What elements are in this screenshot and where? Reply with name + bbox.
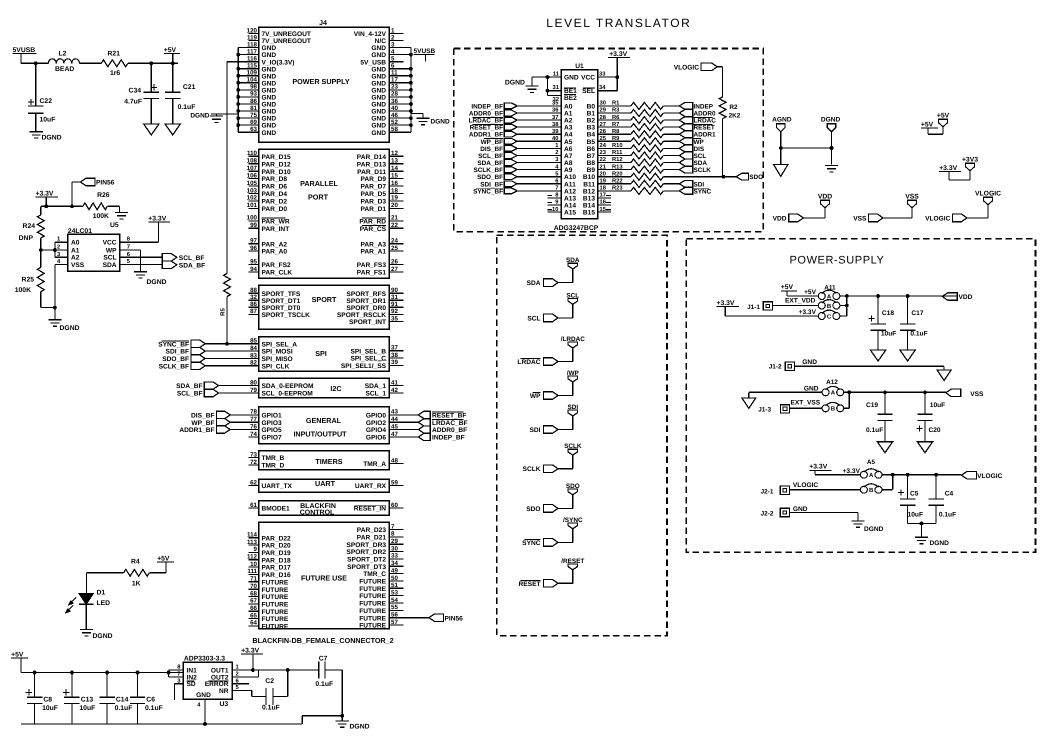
svg-text:87: 87 — [250, 308, 257, 315]
svg-text:LRDAC: LRDAC — [517, 359, 540, 366]
svg-text:VLOGIC: VLOGIC — [793, 482, 819, 489]
svg-text:SYNC: SYNC — [694, 188, 712, 195]
svg-text:41: 41 — [391, 379, 398, 386]
svg-text:15: 15 — [600, 207, 607, 213]
svg-text:3: 3 — [391, 41, 395, 48]
svg-text:B3: B3 — [587, 125, 596, 132]
svg-text:29: 29 — [391, 538, 398, 545]
svg-text:GND: GND — [371, 66, 386, 73]
svg-text:36: 36 — [391, 98, 398, 105]
svg-text:31: 31 — [553, 84, 560, 91]
svg-text:/RESET: /RESET — [561, 558, 584, 565]
svg-text:AGND: AGND — [772, 117, 792, 124]
svg-text:2: 2 — [57, 244, 60, 251]
svg-text:BE2: BE2 — [564, 95, 577, 102]
svg-text:GND: GND — [262, 102, 277, 109]
svg-text:GND: GND — [371, 73, 386, 80]
svg-text:WP: WP — [106, 247, 117, 254]
svg-text:J1-3: J1-3 — [758, 407, 771, 414]
svg-text:B6: B6 — [587, 146, 596, 153]
svg-text:A1: A1 — [71, 247, 80, 254]
svg-text:A12: A12 — [826, 379, 838, 386]
svg-text:PAR_D1: PAR_D1 — [360, 206, 386, 213]
svg-text:U1: U1 — [575, 63, 584, 70]
svg-text:TMR_A: TMR_A — [363, 461, 386, 468]
svg-text:ADDR0_BF: ADDR0_BF — [432, 427, 467, 434]
svg-text:RESET_BF: RESET_BF — [470, 125, 503, 132]
svg-text:22: 22 — [391, 222, 398, 229]
svg-text:GND: GND — [262, 116, 277, 123]
svg-text:24: 24 — [600, 142, 607, 149]
svg-text:SDO: SDO — [526, 506, 540, 513]
svg-text:RESET: RESET — [694, 125, 715, 132]
svg-text:FUTURE: FUTURE — [359, 579, 386, 586]
svg-text:PAR_A0: PAR_A0 — [262, 249, 288, 256]
svg-text:19: 19 — [391, 195, 398, 202]
svg-text:+3.3V: +3.3V — [148, 216, 166, 223]
svg-text:102: 102 — [247, 195, 258, 202]
svg-text:21: 21 — [391, 215, 398, 222]
svg-text:FUTURE: FUTURE — [262, 579, 289, 586]
svg-text:30: 30 — [600, 100, 606, 107]
svg-text:EXT_VSS: EXT_VSS — [791, 400, 821, 407]
svg-text:53: 53 — [391, 589, 398, 596]
svg-text:SPORT_INT: SPORT_INT — [349, 319, 386, 326]
svg-text:24: 24 — [391, 238, 398, 245]
svg-text:52: 52 — [391, 119, 398, 126]
svg-text:+5V: +5V — [937, 112, 950, 119]
svg-text:77: 77 — [250, 416, 257, 423]
svg-text:80: 80 — [250, 379, 257, 386]
svg-text:FUTURE: FUTURE — [359, 601, 386, 608]
svg-text:BLACKFIN-DB_FEMALE_CONNECTOR_2: BLACKFIN-DB_FEMALE_CONNECTOR_2 — [252, 636, 393, 645]
svg-text:CONTROL: CONTROL — [300, 510, 335, 517]
svg-text:26: 26 — [600, 128, 607, 135]
svg-text:SCL_BF: SCL_BF — [177, 391, 203, 398]
svg-text:GND: GND — [262, 73, 277, 80]
svg-text:+3.3V: +3.3V — [609, 51, 627, 58]
svg-text:B5: B5 — [587, 139, 596, 146]
svg-text:72: 72 — [250, 459, 257, 466]
svg-text:SPORT_RFS: SPORT_RFS — [346, 291, 386, 298]
svg-text:SDI: SDI — [530, 427, 541, 434]
svg-text:92: 92 — [391, 308, 398, 315]
svg-text:76: 76 — [250, 423, 257, 430]
svg-text:93: 93 — [250, 91, 257, 98]
svg-text:C4: C4 — [945, 491, 954, 498]
svg-text:PAR_D20: PAR_D20 — [262, 543, 292, 550]
svg-text:SDA_BF: SDA_BF — [176, 383, 202, 390]
svg-text:39: 39 — [552, 128, 559, 135]
svg-text:23: 23 — [600, 149, 607, 156]
svg-text:SCLK: SCLK — [564, 443, 582, 450]
svg-text:FUTURE: FUTURE — [359, 623, 386, 630]
svg-text:NR: NR — [219, 688, 229, 695]
svg-text:WP: WP — [694, 139, 705, 146]
svg-text:B7: B7 — [587, 153, 596, 160]
svg-text:C7: C7 — [319, 656, 328, 663]
svg-text:SCL_BF: SCL_BF — [179, 255, 205, 262]
svg-text:13: 13 — [391, 158, 398, 165]
svg-text:A10: A10 — [564, 174, 576, 181]
svg-text:+5V: +5V — [921, 121, 934, 128]
svg-text:A1: A1 — [564, 111, 573, 118]
svg-text:10uF: 10uF — [79, 705, 95, 712]
svg-text:DGND: DGND — [821, 117, 841, 124]
svg-text:A3: A3 — [564, 125, 573, 132]
svg-text:SPI_SEL_C: SPI_SEL_C — [350, 356, 386, 363]
svg-text:0.1uF: 0.1uF — [866, 427, 883, 434]
svg-text:B4: B4 — [587, 132, 596, 139]
svg-text:0.1uF: 0.1uF — [910, 331, 927, 338]
svg-text:7V_UNREGOUT: 7V_UNREGOUT — [262, 38, 311, 45]
svg-text:SPORT_DT1: SPORT_DT1 — [262, 298, 301, 305]
svg-text:B15: B15 — [583, 210, 595, 217]
svg-text:FUTURE: FUTURE — [262, 624, 289, 631]
svg-text:7: 7 — [555, 186, 558, 192]
svg-text:LRDAC_BF: LRDAC_BF — [432, 420, 468, 427]
svg-text:SDA_0-EEPROM: SDA_0-EEPROM — [262, 383, 315, 390]
svg-text:SDA: SDA — [566, 257, 580, 264]
svg-text:12: 12 — [391, 150, 398, 157]
svg-text:34: 34 — [391, 560, 398, 567]
svg-text:40: 40 — [552, 135, 558, 142]
svg-text:82: 82 — [250, 360, 257, 367]
svg-text:78: 78 — [250, 409, 257, 416]
svg-text:37: 37 — [391, 345, 398, 352]
svg-text:J2-2: J2-2 — [761, 511, 774, 518]
svg-text:C8: C8 — [43, 697, 52, 704]
svg-text:SCLK: SCLK — [523, 466, 541, 473]
svg-text:75: 75 — [250, 112, 257, 119]
svg-text:TMR_D: TMR_D — [262, 463, 285, 470]
svg-text:INPUT/OUTPUT: INPUT/OUTPUT — [293, 430, 347, 439]
svg-text:RESET_BF: RESET_BF — [432, 413, 466, 420]
svg-text:46: 46 — [391, 112, 398, 119]
svg-text:LRDAC_BF: LRDAC_BF — [469, 118, 504, 125]
svg-text:B14: B14 — [583, 203, 595, 210]
svg-text:+3.3V: +3.3V — [717, 300, 735, 307]
svg-text:44: 44 — [391, 416, 398, 423]
svg-text:81: 81 — [250, 105, 257, 112]
svg-text:/SYNC: /SYNC — [563, 517, 583, 524]
svg-text:40: 40 — [391, 105, 398, 112]
svg-text:10uF: 10uF — [42, 705, 58, 712]
svg-text:116: 116 — [247, 56, 258, 63]
svg-text:SPORT_DR3: SPORT_DR3 — [346, 542, 386, 549]
svg-text:10: 10 — [250, 561, 257, 568]
svg-text:112: 112 — [247, 554, 258, 561]
svg-text:SDA_BF: SDA_BF — [179, 263, 205, 270]
svg-text:ADDR1: ADDR1 — [694, 132, 716, 139]
svg-text:GND: GND — [262, 66, 277, 73]
svg-text:101: 101 — [247, 202, 258, 209]
svg-text:SCLK_BF: SCLK_BF — [159, 363, 189, 370]
svg-text:LRDAC: LRDAC — [694, 118, 717, 125]
svg-text:A15: A15 — [564, 210, 576, 217]
svg-text:VIN_4-12V: VIN_4-12V — [354, 31, 387, 38]
svg-text:73: 73 — [250, 451, 257, 458]
svg-text:38: 38 — [391, 352, 398, 359]
svg-text:SCL_0-EEPROM: SCL_0-EEPROM — [262, 391, 314, 398]
svg-text:PAR_D23: PAR_D23 — [357, 527, 387, 534]
svg-text:VLOGIC: VLOGIC — [925, 215, 951, 222]
svg-text:ADG3247BCP: ADG3247BCP — [554, 225, 599, 232]
svg-text:GND: GND — [262, 52, 277, 59]
svg-text:SPORT_DT3: SPORT_DT3 — [347, 564, 386, 571]
svg-text:GND: GND — [262, 109, 277, 116]
svg-text:PAR_D22: PAR_D22 — [262, 535, 292, 542]
svg-text:VDD: VDD — [959, 294, 973, 301]
svg-text:GPIO3: GPIO3 — [262, 420, 282, 427]
svg-text:DGND: DGND — [147, 279, 167, 286]
svg-text:BEAD: BEAD — [55, 66, 74, 73]
svg-text:85: 85 — [250, 338, 257, 345]
svg-text:119: 119 — [247, 34, 258, 41]
svg-text:39: 39 — [391, 359, 398, 366]
svg-text:FUTURE USE: FUTURE USE — [301, 574, 347, 583]
svg-text:GND: GND — [371, 95, 386, 102]
svg-text:4.7uF: 4.7uF — [124, 99, 142, 106]
svg-text:62: 62 — [250, 479, 257, 486]
svg-text:SDO: SDO — [749, 174, 763, 181]
svg-text:FUTURE: FUTURE — [262, 602, 289, 609]
svg-text:SYNC_BF: SYNC_BF — [158, 341, 189, 348]
svg-text:B12: B12 — [583, 188, 595, 195]
svg-text:32: 32 — [250, 294, 257, 301]
svg-text:B11: B11 — [583, 181, 595, 188]
svg-text:0.1uF: 0.1uF — [178, 104, 196, 111]
svg-text:A0: A0 — [564, 103, 573, 110]
svg-text:VLOGIC: VLOGIC — [674, 64, 700, 71]
svg-text:C22: C22 — [40, 98, 53, 105]
svg-text:GND: GND — [371, 88, 386, 95]
svg-text:INDEP: INDEP — [694, 103, 714, 110]
svg-text:LEVEL TRANSLATOR: LEVEL TRANSLATOR — [546, 16, 691, 30]
svg-text:VSS: VSS — [905, 194, 919, 201]
svg-text:PAR_D4: PAR_D4 — [262, 191, 288, 198]
svg-text:4: 4 — [391, 48, 395, 55]
svg-text:R4: R4 — [131, 559, 140, 566]
svg-text:33: 33 — [599, 71, 606, 78]
svg-text:SPORT_DR2: SPORT_DR2 — [346, 549, 386, 556]
svg-text:WP_BF: WP_BF — [481, 139, 503, 146]
svg-text:DIS: DIS — [694, 146, 705, 153]
svg-text:70: 70 — [250, 583, 257, 590]
svg-text:11: 11 — [391, 70, 398, 77]
svg-text:GND: GND — [793, 506, 808, 513]
svg-text:28: 28 — [600, 114, 607, 121]
svg-text:35: 35 — [552, 100, 559, 107]
svg-text:SPORT_DT0: SPORT_DT0 — [262, 305, 301, 312]
svg-text:GND: GND — [262, 95, 277, 102]
svg-text:A2: A2 — [71, 255, 80, 262]
svg-text:88: 88 — [250, 287, 257, 294]
svg-text:PAR_D17: PAR_D17 — [262, 565, 292, 572]
svg-text:17: 17 — [600, 193, 606, 199]
svg-text:B10: B10 — [583, 174, 595, 181]
svg-text:A12: A12 — [564, 188, 576, 195]
svg-text:SDA_BF: SDA_BF — [477, 160, 503, 167]
svg-text:97: 97 — [250, 238, 257, 245]
svg-text:VSS: VSS — [853, 215, 867, 222]
svg-text:35: 35 — [391, 315, 398, 322]
svg-text:PAR_D19: PAR_D19 — [262, 550, 292, 557]
svg-text:PAR_D10: PAR_D10 — [262, 169, 292, 176]
svg-text:29: 29 — [600, 107, 607, 114]
svg-text:+3.3V: +3.3V — [241, 648, 259, 655]
svg-text:A8: A8 — [564, 160, 573, 167]
svg-text:PAR_D8: PAR_D8 — [262, 176, 288, 183]
svg-text:SPI_CLK: SPI_CLK — [262, 363, 290, 370]
svg-text:PORT: PORT — [308, 193, 329, 202]
svg-text:EXT_VDD: EXT_VDD — [785, 298, 816, 305]
svg-text:A0: A0 — [71, 240, 80, 247]
svg-text:106: 106 — [247, 172, 258, 179]
svg-text:SPORT_TFS: SPORT_TFS — [262, 291, 301, 298]
svg-text:C13: C13 — [81, 697, 94, 704]
svg-text:117: 117 — [247, 48, 258, 55]
svg-text:ADP3303-3.3: ADP3303-3.3 — [184, 656, 225, 663]
svg-text:ADDR1_BF: ADDR1_BF — [469, 132, 503, 139]
svg-text:+3V3: +3V3 — [962, 156, 978, 163]
svg-text:A: A — [869, 472, 874, 479]
svg-text:16: 16 — [391, 180, 398, 187]
svg-text:SDO: SDO — [566, 483, 580, 490]
svg-text:/LRDAC: /LRDAC — [561, 336, 586, 343]
svg-text:C18: C18 — [882, 310, 894, 317]
svg-text:DGND: DGND — [431, 118, 450, 125]
svg-text:B2: B2 — [587, 118, 596, 125]
svg-text:GND: GND — [802, 359, 817, 366]
svg-text:+3.3V: +3.3V — [809, 464, 827, 471]
svg-text:PAR_A3: PAR_A3 — [360, 241, 386, 248]
svg-text:109: 109 — [247, 70, 258, 77]
svg-text:48: 48 — [391, 457, 398, 464]
svg-text:9: 9 — [254, 546, 258, 553]
svg-text:B: B — [827, 303, 832, 310]
svg-text:33: 33 — [391, 553, 398, 560]
svg-text:PAR_CS: PAR_CS — [360, 226, 387, 233]
svg-text:SPORT_DT2: SPORT_DT2 — [347, 557, 386, 564]
svg-text:0.1uF: 0.1uF — [315, 681, 333, 688]
svg-text:59: 59 — [391, 479, 398, 486]
svg-text:27: 27 — [391, 266, 398, 273]
svg-text:SCL: SCL — [103, 255, 116, 262]
svg-text:PAR_A2: PAR_A2 — [262, 241, 288, 248]
svg-text:C21: C21 — [183, 84, 196, 91]
svg-text:GENERAL: GENERAL — [306, 416, 342, 425]
svg-text:1: 1 — [391, 27, 395, 34]
svg-text:SDA: SDA — [527, 280, 541, 287]
svg-text:PAR_D2: PAR_D2 — [262, 199, 288, 206]
svg-text:GPIO5: GPIO5 — [262, 427, 282, 434]
svg-text:SCL_BF: SCL_BF — [478, 153, 503, 160]
svg-text:GND: GND — [371, 116, 386, 123]
svg-text:A4: A4 — [564, 132, 573, 139]
svg-text:SDA: SDA — [694, 160, 708, 167]
svg-text:83: 83 — [250, 352, 257, 359]
svg-text:DGND: DGND — [190, 113, 209, 120]
svg-text:LED: LED — [97, 600, 111, 607]
svg-text:R26: R26 — [97, 192, 110, 199]
svg-text:DNP: DNP — [19, 235, 34, 242]
svg-text:C2: C2 — [265, 678, 274, 685]
svg-text:14: 14 — [391, 165, 398, 172]
svg-text:15: 15 — [391, 172, 398, 179]
svg-text:25: 25 — [391, 245, 398, 252]
svg-text:POWER SUPPLY: POWER SUPPLY — [292, 77, 349, 86]
svg-text:DIS_BF: DIS_BF — [191, 413, 214, 420]
svg-text:I2C: I2C — [330, 384, 341, 393]
svg-text:107: 107 — [247, 165, 258, 172]
svg-text:PAR_RD: PAR_RD — [359, 219, 386, 226]
svg-text:DGND: DGND — [505, 80, 525, 87]
svg-text:SPORT_RSCLK: SPORT_RSCLK — [337, 312, 386, 319]
svg-text:PAR_D9: PAR_D9 — [360, 176, 386, 183]
svg-text:B9: B9 — [587, 167, 596, 174]
svg-text:INDEP_BF: INDEP_BF — [471, 103, 503, 110]
svg-text:GPIO7: GPIO7 — [262, 435, 282, 442]
svg-text:GND: GND — [371, 80, 386, 87]
svg-text:R5: R5 — [220, 308, 227, 316]
svg-text:R21: R21 — [108, 51, 121, 58]
svg-text:22: 22 — [600, 156, 606, 163]
svg-text:DGND: DGND — [864, 526, 884, 533]
svg-text:91: 91 — [391, 301, 398, 308]
svg-text:86: 86 — [250, 98, 257, 105]
svg-text:95: 95 — [250, 258, 257, 265]
svg-text:105: 105 — [247, 180, 258, 187]
svg-text:56: 56 — [391, 612, 398, 619]
svg-text:BMODE1: BMODE1 — [262, 506, 291, 513]
svg-text:SDI_BF: SDI_BF — [480, 181, 503, 188]
svg-text:SCL_1: SCL_1 — [365, 391, 386, 398]
svg-text:PAR_D21: PAR_D21 — [357, 535, 387, 542]
svg-text:PAR_D3: PAR_D3 — [360, 199, 386, 206]
svg-text:PAR_D13: PAR_D13 — [357, 161, 387, 168]
svg-text:SD: SD — [187, 681, 196, 688]
svg-text:31: 31 — [391, 294, 398, 301]
svg-text:PAR_INT: PAR_INT — [262, 226, 290, 233]
svg-text:SPI_SEL_A: SPI_SEL_A — [262, 341, 298, 348]
svg-text:16: 16 — [600, 199, 607, 206]
svg-text:B1: B1 — [587, 111, 596, 118]
svg-text:2: 2 — [236, 671, 239, 678]
svg-text:WP_BF: WP_BF — [191, 420, 214, 427]
svg-text:GND: GND — [371, 123, 386, 130]
svg-text:SDO_BF: SDO_BF — [477, 174, 503, 181]
svg-text:C6: C6 — [146, 697, 155, 704]
svg-text:GND: GND — [371, 130, 386, 137]
svg-text:58: 58 — [391, 126, 398, 133]
svg-text:B: B — [869, 487, 874, 494]
svg-text:37: 37 — [552, 114, 558, 121]
svg-text:PAR_D12: PAR_D12 — [262, 161, 292, 168]
svg-text:1r6: 1r6 — [110, 70, 120, 77]
svg-text:R2: R2 — [729, 104, 738, 111]
svg-text:GPIO4: GPIO4 — [366, 427, 386, 434]
svg-text:VLOGIC: VLOGIC — [977, 473, 1003, 480]
svg-text:RESET: RESET — [519, 581, 541, 588]
svg-text:SCLK_BF: SCLK_BF — [474, 167, 504, 174]
svg-text:+5V: +5V — [781, 284, 794, 291]
svg-text:SPORT_TSCLK: SPORT_TSCLK — [262, 312, 311, 319]
svg-text:66: 66 — [250, 605, 257, 612]
svg-text:A9: A9 — [564, 167, 573, 174]
svg-text:20: 20 — [600, 170, 606, 177]
svg-text:5V_USB: 5V_USB — [360, 59, 386, 66]
